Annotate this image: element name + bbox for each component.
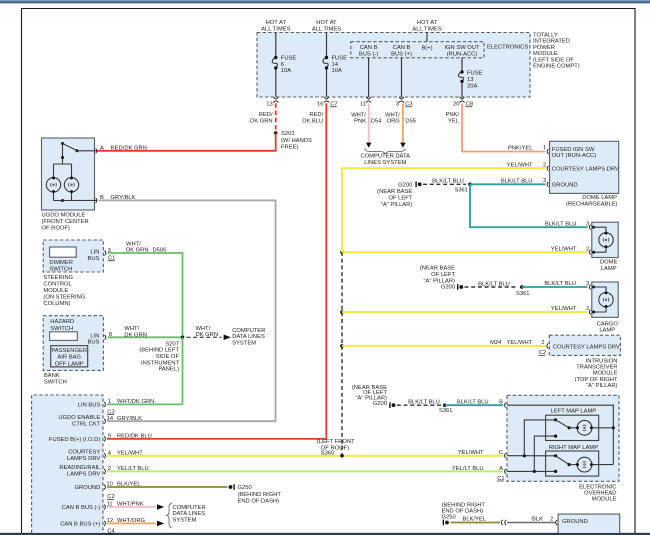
splice S203 [274,131,312,150]
svg-text:G250: G250 [442,514,456,520]
svg-text:LIN: LIN [90,333,99,339]
svg-text:OFF LAMP: OFF LAMP [55,361,84,367]
svg-text:OF LEFT: OF LEFT [388,195,412,201]
svg-text:BLK/LT BLU: BLK/LT BLU [408,399,440,405]
svg-text:10A: 10A [332,68,342,74]
svg-text:BLK/LT BLU: BLK/LT BLU [545,221,577,227]
svg-text:SWITCH: SWITCH [50,326,73,332]
svg-text:20: 20 [453,102,459,108]
svg-text:C: C [499,450,503,456]
svg-text:DK GRN: DK GRN [250,119,273,125]
svg-text:1: 1 [543,145,546,151]
svg-text:LAMP: LAMP [599,328,615,334]
svg-text:3: 3 [586,221,589,227]
svg-text:COURTESY: COURTESY [68,449,100,455]
wire WHT/PNK pin11 [107,506,156,508]
brace computer data lines system (top) [365,149,406,154]
svg-text:ALL TIMES: ALL TIMES [312,27,341,33]
module pin 14 UGDO ENABLE [58,415,142,428]
hot at all times label (fuse 6) [261,20,290,33]
right map lamp bulb [576,457,593,472]
EOM pin A bus [507,436,556,473]
UGDO switch [61,142,97,152]
wire YEL/WHT module pin4 to EOM pin C [107,455,503,457]
dome lamp bulb [599,232,613,249]
svg-text:RED/: RED/ [259,112,273,118]
svg-text:LAMPS DRV: LAMPS DRV [67,456,101,462]
svg-text:(BEHIND LEFT: (BEHIND LEFT [139,348,179,354]
svg-text:ALL TIMES: ALL TIMES [412,27,441,33]
svg-text:(NEAR BASE: (NEAR BASE [377,189,412,195]
hazard switch box [43,316,103,371]
ground G200 (dome) [377,182,421,208]
svg-text:YEL/WHT: YEL/WHT [507,340,533,346]
svg-text:HOT AT: HOT AT [316,20,337,26]
svg-text:(FRONT CENTER: (FRONT CENTER [42,219,89,225]
svg-text:ORG: ORG [387,119,401,125]
svg-text:WHT/: WHT/ [196,326,211,332]
wire WHT/ORG pin3 D55 [385,103,416,143]
dome lamp internals [592,226,606,254]
svg-text:RED/DK GRN: RED/DK GRN [111,145,147,151]
CAN B BUS (-) terminal label [359,45,378,58]
svg-text:2: 2 [543,162,546,168]
EOM pin B [499,399,506,407]
dome lamp label [600,260,618,272]
svg-text:CAN B: CAN B [360,45,378,51]
wire BLK/YEL module pin10 to G250 [107,486,228,488]
svg-text:2: 2 [586,306,589,312]
EOM C1 connector label [497,476,505,482]
ground box [558,514,620,533]
cargo lamp internals [592,286,606,314]
svg-text:CAN B BUS (-): CAN B BUS (-) [62,505,101,511]
splice S360 [317,439,355,457]
svg-text:(RECHARGEABLE): (RECHARGEABLE) [566,202,618,208]
svg-text:S361: S361 [439,408,453,414]
svg-text:AIR BAG: AIR BAG [57,355,81,361]
svg-text:OF LEFT: OF LEFT [431,272,455,278]
svg-text:CONTROL: CONTROL [43,281,72,287]
label computer data lines system (top) [361,154,411,166]
B(+) terminal label [421,46,432,52]
svg-text:UGDO MODULE: UGDO MODULE [42,213,86,219]
svg-text:S203: S203 [281,131,295,137]
wire BLK/LT BLU S361 to EOM pin B [445,399,503,405]
svg-text:GROUND: GROUND [75,485,101,491]
svg-text:ENGINE COMPT): ENGINE COMPT) [533,64,580,70]
TIPM pin 20 connector C8 [453,97,473,108]
brace computer data lines system (bottom) [166,503,172,528]
fuse F14 10A [323,56,347,75]
svg-text:GROUND: GROUND [562,519,588,525]
svg-text:CTRL CKT: CTRL CKT [72,421,101,427]
svg-text:WHT/: WHT/ [351,112,366,118]
svg-text:TOTALLY: TOTALLY [533,32,558,38]
right map lamp label [549,445,599,451]
steering control module label [43,275,85,307]
svg-text:COURTESY LAMPS DRV: COURTESY LAMPS DRV [553,344,620,350]
ground box label [562,519,588,525]
svg-text:ELECTRONIC: ELECTRONIC [579,484,616,490]
svg-text:(LEFT SIDE OF: (LEFT SIDE OF [533,57,574,63]
cargo lamp pin 3 [586,281,591,289]
svg-text:BLK: BLK [532,517,543,523]
svg-text:CAN B: CAN B [393,45,411,51]
wire WHT/DK GRN hazard to S207 [108,326,183,338]
passenger air bag off lamp block [51,346,88,367]
svg-text:GROUND: GROUND [552,183,578,189]
label YEL/WHT dome pin2 [507,163,533,169]
svg-text:TRANSCEIVER: TRANSCEIVER [576,365,617,371]
top toolbar bar [0,0,650,3]
svg-text:GRY/BLK: GRY/BLK [117,416,142,422]
svg-text:(RUN-ACC): (RUN-ACC) [447,52,478,58]
svg-text:(NEAR BASE: (NEAR BASE [420,266,455,272]
cargo lamp bulb [599,291,613,308]
wire YEL/WHT to cargo pin2 [340,306,587,314]
svg-text:INTRUSION: INTRUSION [586,359,618,365]
dimmer switch label [49,260,73,273]
dashed wire G200 to S361 (cargo) [465,281,519,287]
svg-text:G200: G200 [441,285,455,291]
svg-text:YEL/WHT: YEL/WHT [507,163,533,169]
svg-text:BLK/LT BLU: BLK/LT BLU [544,281,576,287]
svg-text:G200: G200 [373,401,387,407]
svg-text:INSTRUMENT: INSTRUMENT [141,360,179,366]
EOM pin C [458,450,506,458]
svg-text:3: 3 [396,102,399,108]
TIPM pin 11 connector [360,97,371,108]
svg-text:RIGHT MAP LAMP: RIGHT MAP LAMP [549,445,599,451]
svg-text:14: 14 [107,416,114,422]
svg-text:LAMPS DRV: LAMPS DRV [67,472,101,478]
svg-text:BUS (-): BUS (-) [359,52,378,58]
dashed wire G200 to S361 (dome) [423,179,466,185]
wire RED/DK GRN dashed segment pin13 to S203 [250,103,276,133]
svg-text:DOME: DOME [600,260,618,266]
dome lamp pin 2 [551,246,591,254]
svg-text:A: A [100,145,104,151]
TIPM module box (Totally Integrated Power Module) [257,33,530,98]
svg-text:SYSTEM: SYSTEM [173,517,197,523]
svg-text:S207: S207 [165,341,179,347]
TIPM pin 16 connector C7 [317,97,338,108]
svg-text:HOT AT: HOT AT [417,20,438,26]
svg-text:PANEL): PANEL) [158,367,179,373]
svg-text:BUS: BUS [87,340,99,346]
TIPM pin 3 connector C3 [396,97,413,108]
svg-text:DOME LAMP: DOME LAMP [582,195,617,201]
splice S361 (cargo) [516,285,530,297]
svg-text:YEL/LT BLU: YEL/LT BLU [452,466,484,472]
left map lamp to bus [592,427,613,429]
dome lamp rechargeable label [566,195,618,208]
module pin 11 CAN B BUS (-) [62,502,144,512]
svg-text:FUSE: FUSE [281,56,297,62]
wire S207 down to module pin1 [182,337,184,404]
EOM pin A [452,466,506,474]
yellow riser to dome lamp courtesy [340,168,545,254]
svg-text:COURTESY LAMPS DRV: COURTESY LAMPS DRV [552,167,619,173]
svg-text:DATA LINES: DATA LINES [232,334,265,340]
CAN B (+) internal wire [401,58,403,97]
IGN SW OUT terminal label [444,45,480,58]
svg-text:S361: S361 [516,291,530,297]
svg-text:D54: D54 [371,119,382,125]
svg-text:SYSTEM: SYSTEM [232,340,256,346]
svg-text:END OF DASH): END OF DASH) [238,498,280,504]
wire YEL/LT BLU module pin2 to EOM pin A [107,470,503,472]
svg-text:POWER: POWER [533,45,555,51]
wire BLK/YEL G250 to connector [451,517,501,523]
overhead console module box [32,395,103,533]
fuse F6 10A [272,56,296,75]
module pin 12 CAN B BUS (+) C4 [60,518,145,535]
svg-text:14: 14 [332,62,339,68]
courtesy lamps drv box (intrusion) [549,335,620,355]
steering LIN BUS label [87,250,99,262]
svg-text:13: 13 [467,77,473,83]
svg-text:IGN SW OUT: IGN SW OUT [444,45,480,51]
svg-text:20A: 20A [467,84,477,90]
svg-text:COMPUTER: COMPUTER [173,505,206,511]
ground G250 (right) [442,502,486,525]
fuse F13 20A [458,70,482,89]
module pin 4 COURTESY LAMPS DRV [67,449,143,462]
wire B(+) feed [426,33,428,42]
svg-text:D506: D506 [153,248,167,254]
UGDO lamp left [46,177,60,194]
EOM pin C bus [507,420,556,458]
electronic overhead module label [579,484,616,502]
svg-text:"A" PILLAR): "A" PILLAR) [381,202,413,208]
svg-text:3: 3 [543,178,546,184]
svg-text:(W/ HANDS: (W/ HANDS [281,138,312,144]
svg-text:BLK/LT BLU: BLK/LT BLU [457,399,489,405]
svg-text:OVERHEAD: OVERHEAD [584,490,617,496]
arrow computer data lines (pin3) [400,143,406,148]
svg-text:FUSED IGN SW: FUSED IGN SW [552,147,595,153]
CAN B BUS (+) terminal label [391,45,412,58]
svg-text:STEERING: STEERING [43,275,73,281]
wire YEL/WHT to dome lamp pin2 [342,251,588,253]
svg-text:B: B [499,399,503,405]
wire WHT/DK GRN D506 dimmer to S207 [108,241,183,337]
svg-text:10A: 10A [281,68,291,74]
svg-text:BLK/LT BLU: BLK/LT BLU [501,179,533,185]
svg-text:11: 11 [360,102,366,108]
svg-text:DK BLU: DK BLU [302,119,323,125]
module pin 9 FUSED B+ [49,434,152,444]
svg-text:13: 13 [266,102,272,108]
right map lamp to bus [592,464,613,466]
hot at all times label (fuse 14) [312,20,341,33]
svg-text:FUSED B(+) (I.O.D): FUSED B(+) (I.O.D) [49,437,100,443]
wire WHT/DK GRN module pin1 to S207 riser [107,403,183,405]
hazard LIN BUS label [87,333,99,345]
arrow can b plus [157,521,164,527]
svg-text:"A" PILLAR): "A" PILLAR) [586,383,618,389]
svg-text:SWITCH: SWITCH [44,380,67,386]
svg-text:(BEHIND RIGHT: (BEHIND RIGHT [238,492,282,498]
TIPM label [533,32,580,69]
svg-text:2: 2 [550,517,553,523]
module pin 1 LIN BUS C3 [78,399,155,415]
EOM pin B bus [507,405,615,464]
svg-text:DATA LINES: DATA LINES [173,511,206,517]
svg-text:RED/: RED/ [309,112,323,118]
svg-text:16: 16 [317,102,323,108]
svg-text:G250: G250 [238,485,252,491]
wire BLK/LT BLU S361 down to dome lamp [470,184,588,227]
dome lamp rechargeable box [550,141,619,193]
splice S361 (EOM) [439,403,453,414]
dashed wire S207 to computer data lines [187,336,222,338]
wire WHT/PNK pin11 D54 [351,103,382,143]
svg-text:LAMP: LAMP [601,266,617,272]
right map lamp box [546,451,599,476]
label computer data lines system (bottom) [173,505,206,523]
svg-text:FUSE: FUSE [332,56,348,62]
electronic overhead module box [507,395,619,481]
svg-text:2: 2 [541,340,544,346]
svg-text:OF ROOF): OF ROOF) [42,225,70,231]
dome rechargeable pin 2 [543,162,619,172]
dashed wire G200 to S361 (EOM) [397,399,442,405]
svg-text:BANK: BANK [44,373,60,379]
svg-text:YEL: YEL [448,119,460,125]
arrow computer data lines (pin11) [366,143,372,148]
hazard pin 8 [105,332,112,340]
passenger air bag off lamp label [51,348,87,367]
UGDO pin A [96,145,147,153]
courtesy lamps drv label [553,344,620,350]
ground G250 (left) [229,484,282,504]
svg-text:M24: M24 [490,340,502,346]
UGDO module label [42,213,89,232]
svg-text:SWITCH: SWITCH [49,266,72,272]
svg-text:READING/RAIL: READING/RAIL [59,465,101,471]
CAN B (-) internal wire [368,58,370,97]
svg-text:9: 9 [108,434,111,440]
svg-text:DIMMER: DIMMER [49,260,73,266]
svg-text:DK GRN: DK GRN [196,332,219,338]
wire BLK/LT BLU S361 to dome ground [470,179,546,185]
svg-text:HOT AT: HOT AT [266,20,287,26]
TIPM pin 13 connector [266,97,278,108]
bank switch label [44,373,67,386]
right map lamp switch [554,454,577,473]
hazard switch label [50,319,74,332]
svg-text:YEL/WHT: YEL/WHT [458,450,484,456]
svg-text:CARGO: CARGO [597,321,619,327]
ELECTRONICS label [487,44,528,50]
svg-text:MODULE: MODULE [592,497,617,503]
dome lamp pin 3 [545,221,591,229]
svg-text:WHT/: WHT/ [126,241,141,247]
bottom status bar [0,533,650,535]
svg-text:LEFT MAP LAMP: LEFT MAP LAMP [551,409,597,415]
wire M24 YEL/WHT to intrusion module [340,340,545,348]
svg-text:D55: D55 [405,119,416,125]
svg-text:COMPUTER DATA: COMPUTER DATA [361,154,411,160]
svg-text:MODULE: MODULE [43,288,68,294]
arrow computer data lines (S207) [224,335,231,341]
svg-text:INTEGRATED: INTEGRATED [533,39,570,45]
svg-text:OUT (RUN-ACC): OUT (RUN-ACC) [552,153,596,159]
svg-text:RED/DK BLU: RED/DK BLU [117,434,152,440]
dome lamp box [592,222,618,257]
svg-text:(ON STEERING: (ON STEERING [43,294,85,300]
svg-text:MODULE: MODULE [533,51,558,57]
UGDO module box [42,138,95,210]
svg-text:B(+): B(+) [421,46,432,52]
cargo lamp label [597,321,619,333]
svg-text:BLK/YEL: BLK/YEL [462,517,486,523]
fuse 14 feed wire [326,33,328,97]
inline connector [501,520,506,525]
svg-text:3: 3 [586,281,589,287]
hazard switch block [50,332,78,341]
splice S207 [139,336,184,373]
ground G200 (EOM) [352,385,396,408]
svg-text:CAN B BUS (+): CAN B BUS (+) [60,522,100,528]
ELECTRONICS inner box [351,42,484,58]
left map lamp box [546,415,599,440]
svg-text:HAZARD: HAZARD [50,319,74,325]
wire RED/DK GRN S203 to UGDO pin A [97,133,276,151]
module pin 10 GROUND C2 [75,482,142,501]
svg-text:FUSE: FUSE [467,70,483,76]
dimmer switch block [50,247,77,257]
svg-text:S361: S361 [454,188,468,194]
IGN SW OUT internal wire [461,58,463,97]
svg-text:BLK/LT BLU: BLK/LT BLU [432,179,464,185]
svg-text:G200: G200 [398,183,412,189]
steering pin 3 C1 [105,248,116,262]
svg-text:DK GRN: DK GRN [124,332,147,338]
arrow can b minus [157,504,164,510]
svg-text:(LEFT FRONT: (LEFT FRONT [317,439,355,445]
ground G200 (cargo) [420,266,463,291]
wire RED/DK BLU pin16 to module pin9 [107,103,326,439]
svg-text:COLUMN): COLUMN) [43,301,70,307]
UGDO lamp right [64,177,78,194]
left map lamp switch [554,418,577,437]
intrusion C2 connector [539,343,549,356]
svg-text:FREE): FREE) [281,144,298,150]
fuse 6 feed wire [275,33,277,97]
svg-text:DK GRN: DK GRN [126,248,149,254]
label computer data lines system (S207) [232,328,265,346]
svg-text:WHT/: WHT/ [124,326,139,332]
wire PNK/YEL pin20 to dome lamp pin1 [445,103,545,152]
svg-text:LINES SYSTEM: LINES SYSTEM [364,160,406,166]
intrusion transceiver module label [575,359,618,389]
svg-text:(TOP OF RIGHT: (TOP OF RIGHT [575,377,618,383]
svg-text:YEL/WHT: YEL/WHT [551,306,577,312]
cargo lamp box [592,282,618,317]
dome rechargeable pin 1 [543,145,596,159]
left map lamp label [551,409,597,415]
svg-text:6: 6 [281,62,284,68]
svg-text:BLK/LT BLU: BLK/LT BLU [478,281,510,287]
svg-text:PNK/YEL: PNK/YEL [508,146,533,152]
svg-text:ALL TIMES: ALL TIMES [261,27,290,33]
ground box pin 2 [556,520,557,525]
wire GRY/BLK UGDO pinB to module pin14 [99,200,276,421]
